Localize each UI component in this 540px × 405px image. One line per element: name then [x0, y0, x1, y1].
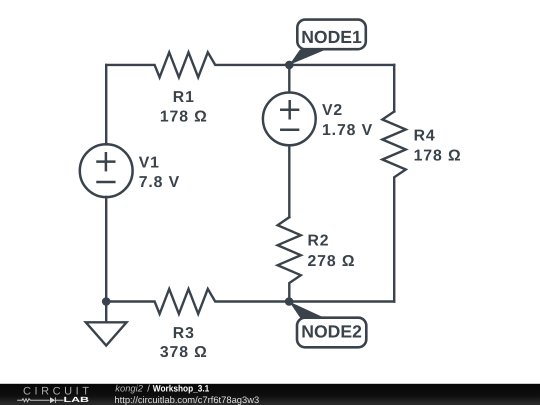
- svg-text:Workshop_3.1: Workshop_3.1: [153, 384, 210, 394]
- svg-text:278 Ω: 278 Ω: [308, 253, 356, 270]
- svg-text:R1: R1: [173, 89, 195, 106]
- svg-text:R4: R4: [414, 128, 436, 145]
- svg-text:178 Ω: 178 Ω: [414, 148, 462, 165]
- svg-text:R3: R3: [173, 325, 195, 342]
- svg-text:R2: R2: [308, 233, 330, 250]
- svg-text:7.8 V: 7.8 V: [139, 174, 180, 191]
- svg-text:NODE1: NODE1: [301, 27, 362, 47]
- svg-text:378 Ω: 378 Ω: [160, 344, 208, 361]
- svg-text:1.78 V: 1.78 V: [322, 122, 373, 139]
- svg-text:V2: V2: [322, 102, 343, 119]
- svg-text:178 Ω: 178 Ω: [160, 108, 208, 125]
- svg-text:http://circuitlab.com/c7rf6t78: http://circuitlab.com/c7rf6t78ag3w3: [114, 394, 259, 405]
- svg-text:LAB: LAB: [64, 395, 90, 404]
- svg-text:kongi2: kongi2: [115, 383, 143, 394]
- svg-text:NODE2: NODE2: [301, 322, 362, 342]
- svg-text:V1: V1: [139, 155, 160, 172]
